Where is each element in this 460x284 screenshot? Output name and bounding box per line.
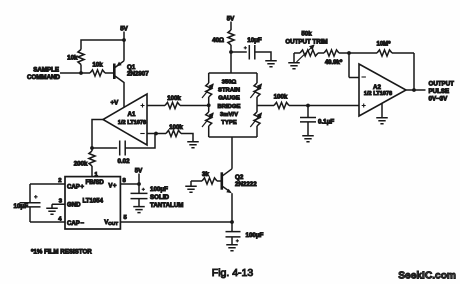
bridge arm variable resistor (left bottom) <box>206 112 212 126</box>
svg-text:GAUGE: GAUGE <box>218 96 240 102</box>
ground (A2) <box>381 103 383 117</box>
wire 5V rail to 10k pull-up <box>81 40 124 50</box>
svg-text:0.1μF: 0.1μF <box>318 119 334 126</box>
ground (100uF) <box>226 245 238 251</box>
svg-text:100k: 100k <box>167 95 181 102</box>
wire to Q1 base <box>105 72 113 74</box>
svg-text:5V: 5V <box>120 26 128 33</box>
ground (0.1uF) <box>302 136 314 142</box>
svg-text:STRAIN: STRAIN <box>218 88 240 94</box>
svg-text:V +: V + <box>108 183 117 190</box>
resistor R5 200k (vertical to FB/SD) <box>89 151 95 166</box>
capacitor C4 10uF (bridge bypass) <box>231 45 271 61</box>
svg-text:2N2907: 2N2907 <box>127 71 149 78</box>
svg-text:GND: GND <box>67 202 81 209</box>
svg-text:FB/SD: FB/SD <box>86 179 105 186</box>
svg-text:1/2 LT1078: 1/2 LT1078 <box>118 120 146 126</box>
capacitor C2 10uF (charge pump) <box>20 184 41 222</box>
transistor Q2 2N2222 (NPN) <box>221 172 224 189</box>
ground (trim pot) <box>288 63 300 69</box>
junction dot A2 summing node <box>347 51 351 55</box>
svg-text:PULSE: PULSE <box>429 88 450 95</box>
capacitor C3 100uF solid tantalum <box>131 193 148 206</box>
wire bridge right tap to A2 + input <box>257 105 274 107</box>
svg-text:10μF: 10μF <box>247 37 262 44</box>
svg-text:10μF: 10μF <box>14 203 29 210</box>
svg-text:100k: 100k <box>169 124 183 131</box>
svg-text:VOUT: VOUT <box>104 219 118 226</box>
svg-text:OUTPUT: OUTPUT <box>429 81 455 88</box>
svg-text:49.9k*: 49.9k* <box>325 60 343 66</box>
svg-text:100μF: 100μF <box>150 186 168 193</box>
svg-text:10M*: 10M* <box>376 42 391 48</box>
svg-text:+V: +V <box>111 100 120 107</box>
resistor R6 40 ohm (vertical) <box>228 30 234 45</box>
wire 100k to ground <box>181 134 193 142</box>
svg-text:0.02: 0.02 <box>117 158 130 165</box>
wire bridge bottom to Q2 collector <box>231 137 233 169</box>
svg-text:10k: 10k <box>92 62 103 69</box>
resistor R9 10M (feedback) <box>377 50 392 56</box>
op-amp A2 1/2 LT1078 <box>359 64 406 116</box>
svg-text:5V: 5V <box>227 16 235 23</box>
junction dot base node <box>79 71 83 75</box>
wire 10M to output node <box>392 53 414 90</box>
ground (A1 - network) <box>187 142 199 148</box>
resistor R4 100k (A1 - to ground) <box>166 130 181 136</box>
bridge arm variable resistor (left top) <box>206 83 212 97</box>
svg-text:TYPE: TYPE <box>221 120 236 126</box>
ground (bridge bypass) <box>265 61 277 67</box>
junction dot bypass tap <box>229 50 233 54</box>
capacitor C6 0.1uF <box>300 106 316 136</box>
ground (tantalum cap) <box>133 207 145 213</box>
svg-text:200k: 200k <box>74 161 88 168</box>
wire A1 + input <box>147 105 165 107</box>
svg-text:*1% FILM RESISTOR: *1% FILM RESISTOR <box>31 249 92 256</box>
junction dot A1 - node <box>154 132 158 136</box>
wire sample command to base network <box>60 72 90 74</box>
svg-text:10k: 10k <box>67 55 78 62</box>
wire A1 output to feedback node <box>92 120 103 149</box>
svg-text:A1: A1 <box>128 111 136 118</box>
junction dot A2 output <box>412 88 416 92</box>
resistor R3 100k (A1 + input) <box>165 102 180 108</box>
resistor R10 100k (A2 + input) <box>274 102 289 108</box>
bridge arm variable resistor (right top) <box>254 83 260 97</box>
svg-text:TANTALUM: TANTALUM <box>150 202 183 209</box>
svg-text:50k: 50k <box>301 31 312 38</box>
svg-text:SeekIC.com: SeekIC.com <box>398 271 456 282</box>
svg-text:3k: 3k <box>202 171 209 178</box>
bridge arm variable resistor (right bottom) <box>254 112 260 126</box>
svg-text:1/2 LT1078: 1/2 LT1078 <box>364 91 392 97</box>
svg-text:BRIDGE: BRIDGE <box>218 104 241 110</box>
svg-text:CAP +: CAP + <box>67 183 84 190</box>
ground (Q2 base) <box>185 186 197 192</box>
svg-text:LT1054: LT1054 <box>83 197 104 204</box>
wire 100k to bridge left tap <box>180 105 209 107</box>
op-amp A1 1/2 LT1078 (points left) <box>103 94 147 145</box>
strain gauge bridge 350 ohm (box) <box>209 73 257 137</box>
junction dot 0.1uF tap <box>306 104 310 108</box>
svg-text:OUTPUT TRIM: OUTPUT TRIM <box>285 39 327 46</box>
svg-text:5V: 5V <box>135 168 143 175</box>
resistor R7 3k (base) <box>202 178 217 184</box>
resistor R1 10k (pull-up, vertical) <box>78 50 84 65</box>
IC U1 LT1054 (box) <box>65 177 120 229</box>
wire Q2 base <box>217 180 222 182</box>
svg-text:0V−3V: 0V−3V <box>429 96 449 103</box>
svg-text:Fig. 4-13: Fig. 4-13 <box>212 267 254 279</box>
svg-text:SAMPLE: SAMPLE <box>33 67 59 74</box>
svg-text:100μF: 100μF <box>246 232 264 239</box>
svg-text:40Ω: 40Ω <box>212 37 224 44</box>
wire A1 - input <box>147 133 166 135</box>
wire 49.9k to summing node <box>339 52 377 54</box>
resistor R8 49.9k <box>324 50 339 56</box>
wire 3k to ground <box>191 181 202 186</box>
wire pot to 49.9k <box>318 52 324 54</box>
svg-text:3mV/V: 3mV/V <box>220 112 238 118</box>
svg-text:2N2222: 2N2222 <box>235 181 257 188</box>
transistor Q1 2N2907 (PNP) <box>113 64 116 80</box>
svg-text:SOLID: SOLID <box>150 194 169 201</box>
svg-text:350Ω: 350Ω <box>222 80 237 86</box>
svg-text:Q2: Q2 <box>235 174 244 181</box>
capacitor C5 100uF (emitter reservoir) <box>226 222 241 245</box>
svg-text:100k: 100k <box>274 94 288 101</box>
junction dot bridge left tap <box>207 103 211 107</box>
wire summing node down to A2 - input <box>349 53 359 78</box>
svg-text:COMMAND: COMMAND <box>27 74 61 81</box>
junction dot feedback node <box>90 146 94 150</box>
junction dot at Q1 emitter feed <box>122 38 126 42</box>
resistor R2 10k (series, horizontal) <box>90 70 105 76</box>
junction dot Q2 emitter / VOUT node <box>230 220 234 224</box>
capacitor C1 0.02 (feedback) <box>92 134 155 156</box>
ground (LT1054 pin 3) <box>46 208 58 214</box>
svg-text:CAP −: CAP − <box>67 220 84 227</box>
wire A2 output <box>406 89 426 91</box>
